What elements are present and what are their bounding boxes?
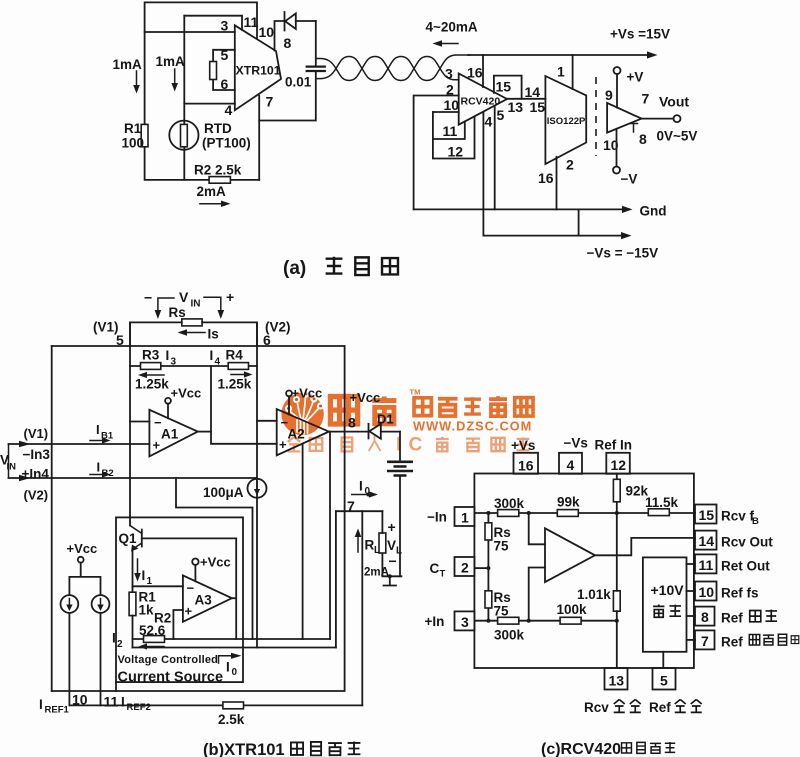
svg-text:75: 75 xyxy=(494,539,510,554)
svg-text:+: + xyxy=(279,437,287,452)
svg-text:Ref fs: Ref fs xyxy=(721,586,759,601)
svg-text:+In4: +In4 xyxy=(22,467,50,482)
isolation barrier dashed line xyxy=(595,77,597,156)
resistor 1.01k xyxy=(577,513,620,668)
load voltage VL labels xyxy=(387,519,402,569)
wire ref box to pin7 xyxy=(687,639,696,641)
svg-text:0.01: 0.01 xyxy=(285,75,312,90)
wire bottom rail A xyxy=(52,511,345,691)
current source IREF1 xyxy=(61,595,79,705)
svg-text:+: + xyxy=(226,289,234,305)
pin 10 box right xyxy=(695,582,717,601)
wire ref box to pin10 xyxy=(687,590,696,592)
svg-text:Current Source: Current Source xyxy=(118,670,224,686)
svg-text:10: 10 xyxy=(72,692,88,708)
svg-text:TM: TM xyxy=(410,388,421,397)
svg-text:14: 14 xyxy=(525,84,541,100)
svg-text:R4: R4 xyxy=(226,348,244,363)
resistor 11.5k xyxy=(645,495,679,516)
svg-text:I: I xyxy=(121,695,125,710)
svg-text:A2: A2 xyxy=(288,427,305,442)
resistor Rs 75 upper xyxy=(485,513,511,568)
svg-text:−In3: −In3 xyxy=(23,447,51,462)
input bracket VIN xyxy=(0,441,31,482)
svg-text:I: I xyxy=(97,460,101,475)
diode D1 xyxy=(369,412,401,439)
wire -Vs rail with arrow xyxy=(483,209,658,260)
terminal -V xyxy=(613,129,637,187)
svg-text:RTD: RTD xyxy=(204,121,232,136)
loop current 4~20mA arrow xyxy=(426,20,478,47)
caption (a) xyxy=(283,257,398,279)
svg-text:ISO122P: ISO122P xyxy=(547,116,586,127)
svg-text:A1: A1 xyxy=(161,427,179,442)
wire bottom rail 2.5k xyxy=(70,704,362,706)
wire node6 to pin8 vertical xyxy=(344,346,346,511)
svg-text:XTR101: XTR101 xyxy=(236,64,281,78)
svg-text:15: 15 xyxy=(530,99,546,115)
wire A3 plus input xyxy=(173,610,183,639)
svg-text:Gnd: Gnd xyxy=(640,204,667,219)
wire pin2 CT row xyxy=(474,567,488,569)
svg-text:T: T xyxy=(440,569,446,580)
watermark char dian xyxy=(414,398,431,416)
wire pin4 vertical to -Vs xyxy=(482,113,484,236)
wire load mid return xyxy=(361,511,363,705)
svg-text:Rcv f: Rcv f xyxy=(721,509,755,524)
label Ref noise control xyxy=(721,634,799,649)
svg-text:Rcv Out: Rcv Out xyxy=(721,535,773,550)
svg-text:2.5k: 2.5k xyxy=(218,712,245,727)
svg-text:(V1): (V1) xyxy=(93,320,119,335)
wire pin10 line xyxy=(433,111,459,113)
junction dot CT xyxy=(486,566,490,570)
svg-text:B: B xyxy=(752,516,759,527)
svg-text:100k: 100k xyxy=(557,602,588,617)
svg-text:I: I xyxy=(112,631,116,646)
current IB1 arrow xyxy=(90,422,114,444)
svg-text:10: 10 xyxy=(699,584,715,600)
wire pin16 to +Vs xyxy=(482,55,484,87)
current arrow at RL xyxy=(355,529,362,553)
svg-text:+V: +V xyxy=(627,70,644,85)
svg-text:C: C xyxy=(409,435,423,456)
resistor Rs 75 lower xyxy=(485,568,511,621)
terminal +Vcc current sources xyxy=(67,541,101,595)
svg-text:1mA: 1mA xyxy=(156,54,186,69)
svg-text:+Vcc: +Vcc xyxy=(200,555,231,570)
svg-text:(V1): (V1) xyxy=(24,426,49,441)
svg-text:Voltage Controlled: Voltage Controlled xyxy=(118,654,219,666)
svg-text:R: R xyxy=(365,538,375,553)
svg-text:+: + xyxy=(388,519,396,535)
junction dot pin3-Rs xyxy=(486,619,490,623)
svg-text:I: I xyxy=(210,348,214,363)
current label 1mA right xyxy=(156,54,186,92)
terminal +Vcc A3 xyxy=(192,555,231,582)
wire pin5 vertical to gnd xyxy=(494,107,496,210)
svg-text:+In: +In xyxy=(425,614,445,629)
resistor R3 1.25k xyxy=(130,348,257,392)
wire left outer vertical xyxy=(51,346,53,691)
wire pin 7 vertical xyxy=(258,96,260,180)
svg-text:I: I xyxy=(226,660,230,675)
svg-text:+Vcc: +Vcc xyxy=(67,541,98,556)
svg-text:75: 75 xyxy=(494,604,510,619)
svg-text:I: I xyxy=(39,697,43,712)
svg-text:Ref: Ref xyxy=(649,700,671,715)
wire capacitor to pin7 return xyxy=(259,72,316,121)
svg-text:Ref: Ref xyxy=(721,634,743,649)
diode loop protection xyxy=(285,12,316,31)
junction dot 300k-opamp xyxy=(527,511,531,515)
svg-text:Q1: Q1 xyxy=(119,531,138,546)
svg-text:12: 12 xyxy=(611,457,627,473)
wire A2 minus input xyxy=(257,420,277,422)
svg-text:+: + xyxy=(185,604,193,619)
pin 11 box right xyxy=(695,554,717,573)
svg-text:3: 3 xyxy=(445,66,453,82)
svg-text:4: 4 xyxy=(485,114,493,130)
op-amp RCV420 xyxy=(459,74,507,125)
watermark logo disc xyxy=(281,390,324,435)
svg-text:11: 11 xyxy=(104,694,119,710)
current label 1mA left xyxy=(113,57,143,94)
watermark slogan band xyxy=(288,435,530,456)
current source IREF2 xyxy=(92,595,110,705)
svg-text:+Vcc: +Vcc xyxy=(292,386,323,401)
wire pin 4 line xyxy=(184,103,235,105)
wire A2 output xyxy=(329,431,369,433)
svg-text:+Vs =15V: +Vs =15V xyxy=(610,27,670,42)
svg-text:3: 3 xyxy=(221,18,229,34)
op-amp A2 xyxy=(277,409,329,455)
resistor R2 2.5k xyxy=(194,163,242,184)
current I1 arrow xyxy=(134,559,152,587)
svg-text:16: 16 xyxy=(467,65,483,81)
svg-text:REF2: REF2 xyxy=(127,702,151,713)
pin 16 box top xyxy=(514,453,539,474)
svg-text:D1: D1 xyxy=(377,412,394,427)
wire diode down to capacitor xyxy=(315,21,317,66)
svg-text:WWW.DZSC.COM: WWW.DZSC.COM xyxy=(413,419,532,434)
svg-text:−: − xyxy=(187,581,195,596)
svg-text:L: L xyxy=(374,545,380,556)
wire opamp plus input xyxy=(529,568,545,621)
svg-text:1k: 1k xyxy=(139,603,155,618)
junction dot 1.01k row xyxy=(615,619,619,623)
svg-text:+Vcc: +Vcc xyxy=(171,386,202,401)
svg-text:−: − xyxy=(144,290,152,306)
current source 100uA xyxy=(203,479,267,500)
svg-text:92k: 92k xyxy=(626,484,649,499)
wire ref box to pin5 xyxy=(662,652,664,668)
battery stack xyxy=(387,432,413,577)
svg-text:6: 6 xyxy=(221,76,229,92)
resistor 2.5k feedback xyxy=(218,702,245,727)
wire top span loop xyxy=(130,322,257,346)
svg-text:I: I xyxy=(166,348,170,363)
svg-text:(c)RCV420: (c)RCV420 xyxy=(541,741,621,757)
resistor R4 1.25k xyxy=(210,348,253,392)
svg-text:1.25k: 1.25k xyxy=(218,377,252,392)
svg-text:−: − xyxy=(389,553,397,569)
wire ref box to pin11 xyxy=(687,563,696,565)
svg-text:13: 13 xyxy=(609,673,625,689)
pin 3 box left xyxy=(455,611,475,630)
svg-text:Vout: Vout xyxy=(659,94,689,110)
pin 5 box bottom xyxy=(653,668,676,690)
input +In4 line xyxy=(9,477,258,479)
reference +10V box xyxy=(643,557,687,651)
wire A2 apex feedback vertical xyxy=(329,432,331,639)
svg-text:10: 10 xyxy=(444,97,460,113)
wire outer loop left section xyxy=(145,2,260,180)
svg-text:7: 7 xyxy=(642,91,650,107)
svg-text:(PT100): (PT100) xyxy=(202,136,251,151)
wire R1 chain return rail xyxy=(133,647,336,649)
svg-text:5: 5 xyxy=(221,47,229,63)
svg-text:11.5k: 11.5k xyxy=(645,495,679,510)
wire pin2 to gnd xyxy=(414,96,459,210)
svg-text:11: 11 xyxy=(699,557,714,573)
svg-text:1.25k: 1.25k xyxy=(135,377,169,392)
svg-text:+: + xyxy=(153,438,161,453)
ground load xyxy=(384,576,397,585)
pin 12 box top xyxy=(606,453,630,474)
pin 7 box right xyxy=(695,630,715,649)
svg-text:11: 11 xyxy=(244,14,259,30)
terminal Vout xyxy=(642,94,698,144)
current IB2 arrow xyxy=(90,460,114,480)
label Ref tiaozheng xyxy=(721,610,777,626)
wire +Vs supply line with arrow xyxy=(468,27,670,59)
svg-text:16: 16 xyxy=(538,170,554,186)
pin 14 box right xyxy=(695,531,717,550)
svg-text:8: 8 xyxy=(284,35,292,51)
watermark char shi xyxy=(464,397,481,414)
svg-text:−Vs = −15V: −Vs = −15V xyxy=(587,246,659,261)
svg-text:IN: IN xyxy=(7,462,17,473)
svg-text:12: 12 xyxy=(448,144,464,160)
resistor R2 52.6 xyxy=(133,611,331,650)
wire load box top xyxy=(336,510,383,512)
transistor Q1 xyxy=(119,526,142,593)
svg-text:V: V xyxy=(179,289,189,305)
wire R3R4 junction down to A2+ xyxy=(211,366,277,444)
terminal +Vcc A1 xyxy=(165,386,201,419)
svg-text:C: C xyxy=(430,561,440,576)
wire inner top box to pin 11 xyxy=(184,16,242,30)
resistor 300k upper xyxy=(494,496,525,516)
svg-text:5: 5 xyxy=(660,673,668,689)
svg-text:+10V: +10V xyxy=(651,582,685,598)
wire In4 nested loop xyxy=(176,478,253,639)
wire right inner vertical V2 branch xyxy=(256,322,258,647)
VCCS box xyxy=(116,517,243,682)
wire battery bottom to RL bottom xyxy=(382,511,401,576)
svg-text:R1: R1 xyxy=(124,121,142,136)
svg-text:V: V xyxy=(387,538,396,553)
wire A3 minus input xyxy=(133,585,183,587)
junction dot pin1-Rs xyxy=(486,511,490,515)
pin 15 box right xyxy=(695,505,717,524)
svg-text:1: 1 xyxy=(147,576,153,587)
svg-text:Ref In: Ref In xyxy=(595,438,633,453)
wire opamp minus input xyxy=(529,513,545,544)
svg-text:10: 10 xyxy=(259,24,275,40)
main IC box xyxy=(474,474,694,669)
svg-text:(V2): (V2) xyxy=(24,488,49,503)
resistor 100k xyxy=(557,602,588,624)
input -In3 line xyxy=(9,443,150,445)
svg-text:300k: 300k xyxy=(494,628,525,643)
svg-text:8: 8 xyxy=(701,609,709,625)
capacitor 0.01 xyxy=(285,67,326,90)
op-amp output buffer xyxy=(607,103,641,133)
svg-text:7: 7 xyxy=(266,94,274,110)
svg-text:A3: A3 xyxy=(195,593,213,608)
svg-text:15: 15 xyxy=(496,79,512,95)
svg-text:14: 14 xyxy=(699,533,715,549)
svg-text:Ref: Ref xyxy=(721,611,743,626)
svg-text:(b)XTR101: (b)XTR101 xyxy=(203,741,285,757)
wire RTD branch vertical xyxy=(183,16,185,180)
wire pin1 row xyxy=(474,512,695,514)
label Rcv common xyxy=(584,699,641,715)
wire Q1 base to A3 output xyxy=(142,537,236,539)
wire rcv output to iso xyxy=(507,98,545,100)
svg-text:1.01k: 1.01k xyxy=(577,587,611,602)
svg-text:3: 3 xyxy=(461,614,469,630)
twisted pair wire A (top-left to pin3) xyxy=(316,57,459,81)
svg-text:2mA: 2mA xyxy=(197,184,227,199)
svg-text:I: I xyxy=(96,422,100,437)
op-amp A3 xyxy=(183,575,232,621)
source label VIN with polarity hooks xyxy=(144,289,234,319)
wire pin 10 to diode xyxy=(275,21,285,51)
svg-text:99k: 99k xyxy=(557,495,580,510)
svg-text:I: I xyxy=(359,479,363,494)
wire A3 output to base rail xyxy=(232,538,236,639)
junction dot 300k-plus xyxy=(527,619,531,623)
svg-text:Ret Out: Ret Out xyxy=(721,558,770,573)
wire pin3 line xyxy=(145,31,235,33)
svg-text:300k: 300k xyxy=(494,496,525,511)
wire iso pin16 to gnd xyxy=(556,157,558,210)
resistor 92k with pin12 stub xyxy=(613,474,648,514)
wire pin12 loop xyxy=(433,117,475,159)
svg-text:−In: −In xyxy=(427,510,447,525)
svg-text:0: 0 xyxy=(232,667,238,678)
svg-text:11: 11 xyxy=(443,123,458,139)
svg-text:Rcv: Rcv xyxy=(584,700,609,715)
svg-text:IN: IN xyxy=(191,299,201,310)
svg-text:8: 8 xyxy=(639,131,647,147)
svg-text:I: I xyxy=(142,568,146,583)
resistor R1 1k xyxy=(129,590,156,648)
wire opamp output to pin14 xyxy=(595,538,695,555)
svg-text:16: 16 xyxy=(518,458,534,474)
svg-text:+Vs: +Vs xyxy=(511,438,535,453)
svg-text:1mA: 1mA xyxy=(113,57,143,72)
wire node5-6 rail xyxy=(52,345,344,347)
RTD PT100 sensor xyxy=(169,121,250,151)
pin 1 box left xyxy=(455,507,475,526)
ground tick on buffer xyxy=(630,124,638,133)
svg-text:13: 13 xyxy=(508,99,524,115)
resistor 300k lower xyxy=(494,617,525,642)
svg-text:4: 4 xyxy=(567,457,575,473)
svg-text:8: 8 xyxy=(348,415,356,431)
svg-text:−Vs: −Vs xyxy=(564,436,588,451)
wire pin3 row xyxy=(474,620,616,622)
svg-text:100μA: 100μA xyxy=(203,485,244,500)
svg-text:Is: Is xyxy=(208,327,219,342)
svg-text:−V: −V xyxy=(621,172,638,187)
current Is arrow xyxy=(178,327,219,342)
watermark char chang xyxy=(489,396,507,416)
svg-text:4~20mA: 4~20mA xyxy=(426,20,478,35)
current Io output arrow xyxy=(219,653,242,678)
svg-text:100: 100 xyxy=(122,136,145,151)
svg-text:2: 2 xyxy=(117,639,123,650)
watermark big char ku xyxy=(372,397,396,424)
wire iso pin1 to +Vs xyxy=(572,55,574,89)
svg-text:REF1: REF1 xyxy=(45,705,70,716)
watermark char wang xyxy=(515,398,533,416)
svg-text:2: 2 xyxy=(461,560,469,576)
watermark big char wei xyxy=(330,396,357,424)
watermark char zi xyxy=(438,399,458,416)
op-amp A1 xyxy=(149,410,197,457)
junction dot 92k row xyxy=(615,511,619,515)
svg-text:15: 15 xyxy=(699,507,715,523)
svg-text:7: 7 xyxy=(701,633,709,649)
pin 8 box right xyxy=(695,607,715,626)
resistor 99k xyxy=(557,495,580,517)
pin 13 box bottom xyxy=(605,668,628,690)
svg-text:4: 4 xyxy=(225,102,233,118)
wire Gnd rail with arrow xyxy=(414,204,667,219)
isolation amp ISO122P xyxy=(545,76,586,164)
wire VCCS box corner stub xyxy=(115,682,117,691)
pin 4 box top xyxy=(559,453,582,474)
wire A2 lower feedback vertical xyxy=(302,444,304,639)
resistor Rs xyxy=(169,305,203,326)
svg-text:2: 2 xyxy=(566,157,574,173)
svg-text:3: 3 xyxy=(171,357,177,368)
wire A1 minus input xyxy=(130,421,149,423)
svg-text:L: L xyxy=(396,546,402,557)
svg-text:R2 2.5k: R2 2.5k xyxy=(194,163,242,178)
svg-text:Rs: Rs xyxy=(169,305,186,320)
wire pin11 loop xyxy=(433,112,465,139)
svg-text:4: 4 xyxy=(215,357,221,368)
label Ref common xyxy=(649,699,702,715)
caption (c) xyxy=(541,741,675,757)
wire A1 output to junction xyxy=(198,431,211,433)
resistor R1 100 xyxy=(122,121,149,151)
svg-text:1: 1 xyxy=(461,510,469,526)
svg-text:+Vcc: +Vcc xyxy=(350,390,381,405)
svg-text:R3: R3 xyxy=(142,348,160,363)
resistor RL xyxy=(365,533,386,556)
current Io arrow upper xyxy=(352,479,378,498)
terminal +V xyxy=(614,67,644,108)
caption (b) xyxy=(203,741,360,757)
svg-text:9: 9 xyxy=(605,87,613,103)
